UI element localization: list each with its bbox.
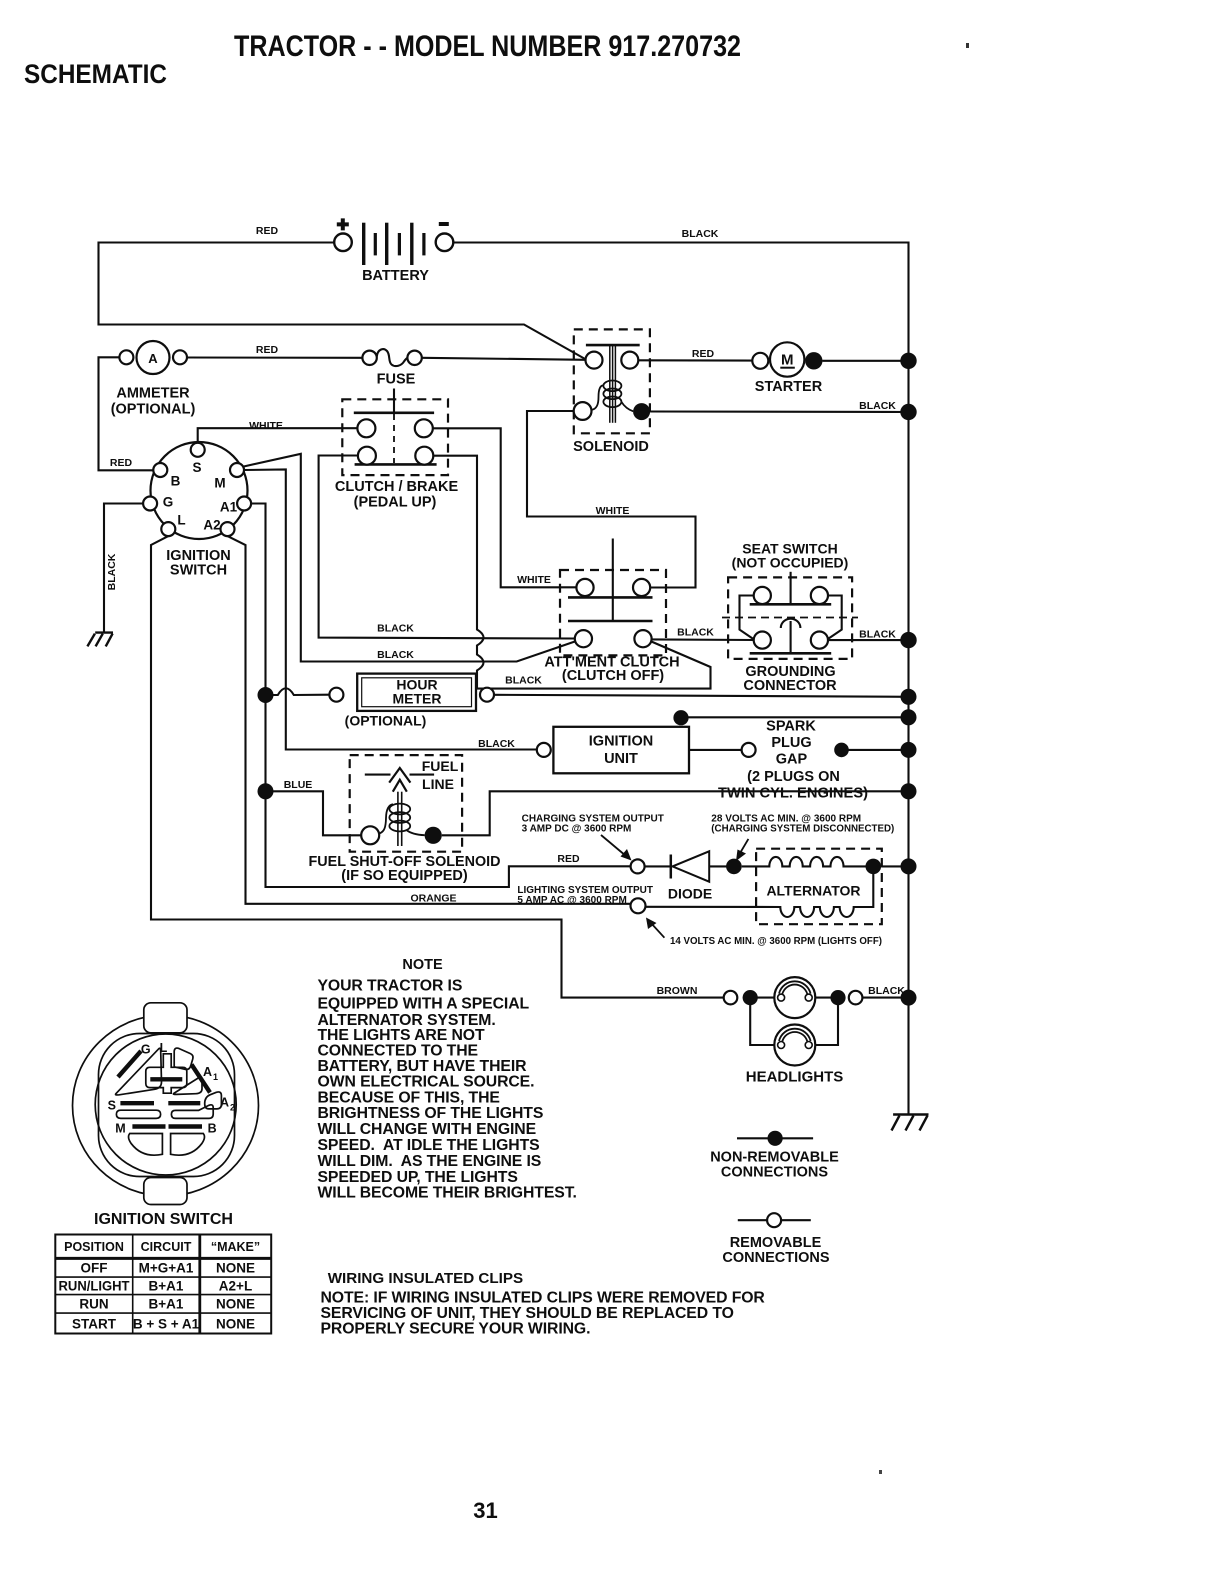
svg-text:(PEDAL UP): (PEDAL UP) (354, 495, 437, 511)
wire clutch/brake bottom-right looping to attment clutch bottom-right (BLACK callout) (433, 456, 710, 689)
svg-text:“MAKE”: “MAKE” (211, 1240, 260, 1254)
svg-text:RED: RED (557, 853, 580, 865)
svg-text:DIODE: DIODE (668, 886, 712, 902)
svg-text:UNIT: UNIT (604, 751, 638, 767)
wire hour meter to bus (494, 695, 909, 697)
wire starter to bus (823, 360, 909, 362)
svg-text:M: M (214, 476, 225, 491)
svg-text:A2: A2 (203, 518, 220, 533)
svg-text:M: M (115, 1121, 125, 1135)
svg-text:BLACK: BLACK (505, 675, 542, 687)
clips note text (321, 1290, 766, 1338)
svg-text:B: B (171, 474, 181, 489)
key slot triangle (116, 1048, 162, 1095)
svg-text:METER: METER (393, 691, 442, 707)
svg-text:B + S + A1: B + S + A1 (133, 1317, 200, 1332)
key contact bars (118, 1051, 210, 1127)
clutch/brake switch (pedal up) (335, 389, 459, 511)
svg-text:ALTERNATOR: ALTERNATOR (766, 883, 860, 899)
svg-text:BLACK: BLACK (377, 623, 414, 635)
note text block (318, 978, 577, 1202)
node headlight left (743, 990, 758, 1005)
key slot right triangle (173, 1077, 202, 1095)
wire M to ignition unit (BLACK) (244, 470, 537, 750)
node bus hour meter (901, 689, 917, 705)
svg-text:L: L (177, 513, 185, 528)
svg-text:FUSE: FUSE (377, 372, 416, 388)
svg-text:TWIN CYL. ENGINES): TWIN CYL. ENGINES) (718, 786, 868, 802)
switch position table (55, 1235, 271, 1334)
wire headlight branch left (750, 998, 774, 1045)
svg-text:B+A1: B+A1 (149, 1297, 184, 1312)
node bus ignition unit (901, 709, 917, 725)
speck top right (966, 43, 969, 48)
svg-text:PLUG: PLUG (771, 735, 811, 751)
wire BLUE to fuel solenoid (266, 791, 362, 835)
wire headlight1 to right node (815, 997, 838, 999)
svg-text:(OPTIONAL): (OPTIONAL) (111, 402, 196, 418)
svg-text:WIRING INSULATED CLIPS: WIRING INSULATED CLIPS (328, 1270, 523, 1287)
svg-text:BLACK: BLACK (859, 400, 896, 412)
svg-text:CIRCUIT: CIRCUIT (141, 1240, 192, 1254)
svg-text:HEADLIGHTS: HEADLIGHTS (746, 1069, 844, 1086)
svg-text:IGNITION SWITCH: IGNITION SWITCH (94, 1211, 233, 1228)
svg-text:AMMETER: AMMETER (116, 386, 190, 402)
svg-text:A: A (203, 1065, 212, 1079)
svg-text:SOLENOID: SOLENOID (573, 439, 649, 455)
node bus-solenoid (900, 404, 916, 420)
svg-text:G: G (141, 1043, 151, 1057)
wire attment clutch to seat switch (BLACK) (652, 638, 754, 641)
wire solenoid to starter (RED) (638, 359, 752, 361)
svg-text:CLUTCH / BRAKE: CLUTCH / BRAKE (335, 479, 459, 495)
svg-text:NOTE: IF WIRING INSULATED CLIP: NOTE: IF WIRING INSULATED CLIPS WERE REM… (321, 1290, 766, 1307)
svg-text:WILL DIM. AS THE ENGINE IS: WILL DIM. AS THE ENGINE IS (318, 1153, 542, 1170)
ground (main bus) (892, 1115, 929, 1131)
key letters (108, 1041, 235, 1135)
headlight 2 (774, 1025, 815, 1066)
key slot L pocket (174, 1048, 193, 1069)
node bus fuel (901, 783, 917, 799)
svg-text:EQUIPPED WITH A SPECIAL: EQUIPPED WITH A SPECIAL (318, 995, 530, 1012)
svg-text:2: 2 (230, 1103, 235, 1113)
ground (ignition switch) (87, 633, 113, 647)
svg-text:31: 31 (473, 1498, 497, 1523)
svg-text:(OPTIONAL): (OPTIONAL) (345, 713, 427, 729)
svg-text:NONE: NONE (216, 1317, 255, 1332)
svg-text:BLACK: BLACK (478, 738, 515, 750)
node bus headlight (901, 990, 917, 1006)
wire charging circle to diode (645, 865, 671, 867)
key slot bottom-left pie (129, 1134, 163, 1156)
node A1 hour-meter tap (258, 687, 274, 703)
wire fuel solenoid to bus (442, 791, 909, 835)
starter motor M (752, 342, 822, 395)
wire fuse to solenoid (422, 358, 586, 360)
legend non-removable connections (710, 1131, 839, 1181)
arrow 28v (736, 839, 748, 861)
svg-text:1: 1 (213, 1072, 218, 1082)
svg-text:CONNECTIONS: CONNECTIONS (722, 1250, 829, 1266)
svg-text:PROPERLY SECURE YOUR WIRING.: PROPERLY SECURE YOUR WIRING. (321, 1321, 591, 1338)
ignition switch pictorial (73, 1003, 259, 1205)
node ignition unit top (673, 710, 688, 725)
svg-text:NONE: NONE (216, 1297, 255, 1312)
svg-text:TRACTOR - - MODEL NUMBER 917.2: TRACTOR - - MODEL NUMBER 917.270732 (234, 30, 741, 63)
svg-text:G: G (163, 495, 174, 510)
svg-text:S: S (192, 460, 201, 475)
svg-text:SERVICING OF UNIT, THEY SHOULD: SERVICING OF UNIT, THEY SHOULD BE REPLAC… (321, 1305, 734, 1322)
wire clutch/brake top-right down to attment clutch top-left (WHITE) (433, 428, 577, 587)
spark plug gap (718, 719, 868, 802)
wire hour meter left with hop (266, 688, 330, 695)
wire A clutch/brake bottom-left to attment clutch (BLACK) (319, 456, 575, 639)
key slot center cross (146, 1054, 187, 1093)
svg-text:WHITE: WHITE (517, 574, 551, 586)
svg-text:ORANGE: ORANGE (410, 893, 456, 905)
fuse F1 (362, 349, 421, 387)
svg-text:OWN ELECTRICAL SOURCE.: OWN ELECTRICAL SOURCE. (318, 1073, 535, 1090)
wire headlight branch right (815, 998, 838, 1045)
svg-text:IGNITION: IGNITION (589, 734, 653, 750)
arrow charging (601, 835, 632, 861)
svg-text:FUEL: FUEL (422, 758, 459, 774)
svg-text:RUN/LIGHT: RUN/LIGHT (59, 1279, 131, 1294)
wire RED battery-positive to left rail and diagonal to solenoid (99, 243, 587, 360)
legend removable connections (722, 1213, 829, 1266)
svg-text:BLACK: BLACK (682, 228, 719, 240)
svg-text:BRIGHTNESS OF THE LIGHTS: BRIGHTNESS OF THE LIGHTS (318, 1105, 544, 1122)
svg-text:RED: RED (692, 348, 715, 360)
svg-text:(CLUTCH OFF): (CLUTCH OFF) (562, 668, 664, 684)
svg-text:GAP: GAP (776, 752, 808, 768)
wire seat switch to bus (BLACK) (828, 639, 909, 641)
svg-text:BECAUSE OF THIS, THE: BECAUSE OF THIS, THE (318, 1089, 500, 1106)
key slot under-S left (116, 1110, 160, 1118)
svg-text:BATTERY: BATTERY (362, 268, 429, 284)
solenoid (573, 329, 650, 455)
wire A1 RED to charging output (251, 504, 630, 888)
headlight connector right (849, 991, 863, 1005)
svg-text:START: START (72, 1317, 117, 1332)
svg-text:A1: A1 (220, 500, 238, 515)
svg-text:WHITE: WHITE (249, 420, 283, 432)
svg-text:RED: RED (256, 225, 279, 237)
hour meter (optional) (329, 674, 494, 729)
svg-text:NON-REMOVABLE: NON-REMOVABLE (710, 1150, 839, 1166)
svg-text:OFF: OFF (81, 1261, 108, 1276)
svg-text:STARTER: STARTER (755, 379, 823, 395)
wire BLACK battery-negative to right bus (full vertical bus) (454, 243, 909, 1115)
svg-text:NOTE: NOTE (402, 957, 443, 973)
svg-text:YOUR TRACTOR IS: YOUR TRACTOR IS (318, 978, 463, 995)
svg-text:14 VOLTS AC MIN. @ 3600 RPM (L: 14 VOLTS AC MIN. @ 3600 RPM (LIGHTS OFF) (670, 936, 882, 947)
svg-text:BLACK: BLACK (677, 627, 714, 639)
wire ignition unit to spark plug gap (689, 749, 742, 751)
ignition unit (537, 727, 689, 774)
ammeter A (optional) (111, 341, 196, 418)
wire alternator to bus (881, 865, 908, 867)
svg-text:POSITION: POSITION (64, 1240, 124, 1254)
fuel shut-off solenoid (309, 755, 501, 884)
ignition switch (schematic circle) (143, 442, 251, 579)
wire diode to node (709, 865, 727, 867)
svg-text:BLACK: BLACK (868, 985, 905, 997)
headlight connector left (724, 991, 738, 1005)
key slot under-S right (171, 1105, 213, 1119)
svg-text:BLACK: BLACK (106, 553, 118, 590)
seat switch / grounding connector (722, 541, 858, 695)
alternator (646, 849, 882, 925)
svg-text:M+G+A1: M+G+A1 (139, 1261, 194, 1276)
diode D1 (671, 851, 709, 881)
svg-text:L: L (160, 1041, 168, 1055)
svg-text:(CHARGING SYSTEM DISCONNECTED): (CHARGING SYSTEM DISCONNECTED) (711, 824, 894, 835)
wire ammeter left rail to ignition switch B (RED) (99, 357, 154, 470)
svg-text:A: A (148, 351, 158, 366)
annotation 28 volts (711, 814, 894, 835)
svg-text:CONNECTOR: CONNECTOR (743, 678, 837, 694)
svg-text:5 AMP AC @ 3600 RPM: 5 AMP AC @ 3600 RPM (517, 895, 626, 906)
node bus spark (901, 742, 917, 758)
svg-text:SPARK: SPARK (766, 719, 816, 735)
wire solenoid coil WHITE down to attment clutch (527, 411, 696, 588)
svg-text:CONNECTIONS: CONNECTIONS (721, 1165, 828, 1181)
svg-text:WILL BECOME THEIR BRIGHTEST.: WILL BECOME THEIR BRIGHTEST. (318, 1185, 577, 1202)
key slot A2 hook (205, 1092, 222, 1109)
key slot bottom-right pie (171, 1134, 205, 1156)
speck bottom right (879, 1470, 882, 1474)
svg-text:RED: RED (256, 344, 279, 356)
svg-text:NONE: NONE (216, 1261, 255, 1276)
wire node to headlight1 (750, 997, 774, 999)
svg-text:(IF SO EQUIPPED): (IF SO EQUIPPED) (341, 868, 468, 884)
svg-text:B+A1: B+A1 (149, 1279, 184, 1294)
svg-text:SWITCH: SWITCH (170, 563, 227, 579)
svg-text:REMOVABLE: REMOVABLE (730, 1235, 822, 1251)
svg-text:CONNECTED TO THE: CONNECTED TO THE (318, 1042, 478, 1059)
annotation lighting output (517, 885, 653, 906)
svg-text:A2+L: A2+L (219, 1279, 252, 1294)
svg-text:SPEED. AT IDLE THE LIGHTS: SPEED. AT IDLE THE LIGHTS (318, 1137, 540, 1154)
battery B1 (334, 218, 453, 284)
svg-text:RED: RED (110, 457, 133, 469)
wire G terminal to ground (BLACK) (104, 504, 143, 633)
headlight 1 (774, 977, 815, 1018)
node bus alternator (901, 858, 917, 874)
svg-text:SPEEDED UP, THE LIGHTS: SPEEDED UP, THE LIGHTS (318, 1169, 518, 1186)
svg-text:S: S (108, 1099, 116, 1113)
charging output connector (631, 859, 645, 873)
node bus-starter (900, 353, 916, 369)
lighting output connector (631, 898, 646, 913)
node bus-seat (900, 632, 916, 648)
svg-text:LINE: LINE (422, 776, 454, 792)
annotation charging output (522, 814, 664, 835)
arrow 14v (646, 918, 664, 938)
svg-text:SCHEMATIC: SCHEMATIC (24, 59, 167, 89)
node headlight right (830, 990, 845, 1005)
wire M diagonal down to attment clutch (wire B) (244, 454, 576, 662)
svg-text:WHITE: WHITE (596, 505, 630, 517)
wire headlight to bus (BLACK) (862, 997, 908, 999)
svg-text:BLUE: BLUE (284, 779, 313, 791)
svg-text:RUN: RUN (79, 1297, 108, 1312)
wire ammeter to fuse (RED) (187, 356, 362, 358)
node diode-alternator (726, 859, 742, 875)
wire A2 ORANGE to lighting output (228, 536, 631, 904)
svg-text:B: B (208, 1121, 217, 1135)
svg-text:(NOT OCCUPIED): (NOT OCCUPIED) (732, 555, 849, 571)
node A1 blue tap (258, 783, 274, 799)
attment clutch switch (clutch off) (544, 539, 679, 685)
svg-text:A: A (220, 1096, 229, 1110)
svg-text:BLACK: BLACK (377, 649, 414, 661)
svg-text:3 AMP DC @ 3600 RPM: 3 AMP DC @ 3600 RPM (522, 824, 632, 835)
wire solenoid coil to bus (BLACK) (650, 410, 908, 413)
wire ignition unit top to bus (681, 716, 909, 718)
svg-text:BLACK: BLACK (859, 629, 896, 641)
wire L BROWN to headlights (151, 536, 724, 998)
svg-text:WILL CHANGE WITH ENGINE: WILL CHANGE WITH ENGINE (318, 1121, 537, 1138)
wire S terminal WHITE to clutch/brake (198, 428, 358, 443)
node alternator junction (866, 859, 882, 875)
svg-text:(2 PLUGS ON: (2 PLUGS ON (747, 769, 840, 785)
wire spark gap to bus (849, 749, 909, 751)
svg-text:BROWN: BROWN (657, 985, 698, 997)
svg-text:M: M (781, 352, 794, 369)
